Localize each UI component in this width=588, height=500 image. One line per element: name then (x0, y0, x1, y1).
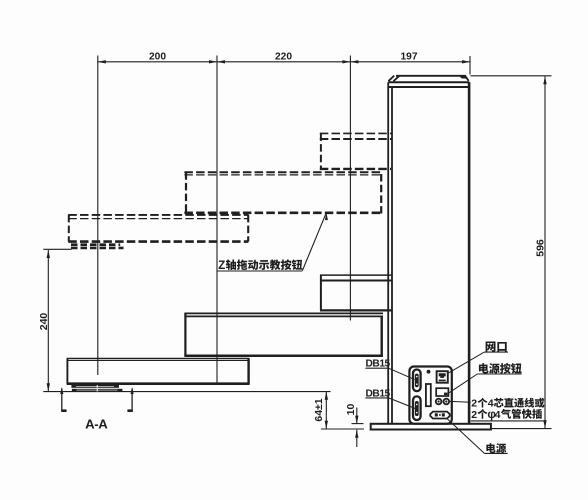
column right edge (468, 82, 471, 423)
svg-text:64±1: 64±1 (313, 398, 325, 421)
extension line x=350.5 (349, 56, 351, 321)
extension line joint2 axis x=217 (216, 56, 218, 386)
section mark A right foot (127, 409, 132, 412)
power inlet (430, 412, 449, 419)
dim 10 upper shaft (356, 408, 358, 424)
dashed arm2 left edge (185, 172, 187, 213)
column left edge inner (391, 87, 393, 424)
column top left chamfer (388, 76, 394, 82)
dimension line top (98, 61, 470, 63)
arrow dim197 right (462, 60, 470, 63)
dashed arm1 top line 2 (68, 218, 248, 220)
arrow dim220 left (217, 60, 225, 63)
tool flange upper bar (71, 385, 119, 388)
leader DB15 upper (389, 368, 415, 379)
extension line column right x=470 (469, 56, 471, 75)
dashed arm2 top line 2 (184, 174, 383, 176)
connector panel plate (409, 367, 451, 424)
dim text 64±1 (313, 398, 325, 421)
extension line 10 top (352, 423, 364, 425)
dashed carriage left edge (320, 133, 322, 168)
column cap line 1 (388, 81, 469, 83)
carriage bottom edge (320, 309, 392, 311)
dashed arm2 top line 1 (184, 171, 383, 173)
leader air tube (450, 400, 471, 403)
dim 10 lower shaft (356, 430, 358, 447)
dim text 200 (149, 52, 166, 63)
arrow dim200 right (209, 60, 217, 63)
dashed carriage bottom edge (320, 168, 391, 170)
arrow dim220 right (342, 60, 350, 63)
svg-text:240: 240 (38, 313, 50, 331)
arm2 top line 2 (184, 315, 383, 317)
svg-text:596: 596 (535, 239, 547, 257)
arm1 top line 1 (67, 357, 250, 359)
label ethernet port (486, 341, 507, 351)
dashed arm1 bottom edge (68, 240, 248, 243)
section mark A left foot (61, 409, 66, 412)
svg-text:10: 10 (345, 404, 357, 416)
dim text 596 (535, 239, 547, 257)
arm1 top line 2 (67, 359, 250, 361)
label power button underline (477, 373, 521, 375)
dimension line 240 (47, 250, 49, 391)
leader DB15 lower (389, 398, 416, 409)
column top right chamfer mark (459, 75, 467, 78)
arm2 right edge (381, 316, 383, 356)
label ethernet underline (484, 351, 508, 353)
DB15 connector J1 (413, 370, 421, 392)
shared extension line y=391.6 (43, 391, 330, 393)
column left edge outer (387, 82, 389, 423)
arrow 596 bottom (543, 420, 546, 428)
label DB15 upper underline (365, 367, 388, 369)
label power button (479, 363, 522, 374)
svg-text:200: 200 (149, 52, 166, 63)
label DB15 lower underline (365, 397, 388, 399)
label 2x 4-core cable line1 (471, 398, 544, 410)
dim text 220 (275, 52, 292, 63)
carriage top line 2 (320, 280, 392, 282)
svg-text:220: 220 (275, 52, 292, 63)
tool flange lower bar (72, 389, 123, 392)
label 2x phi4 air tube line2 (471, 407, 542, 421)
label Z underline (217, 270, 302, 272)
carriage top line 1 (320, 274, 392, 276)
dashed carriage top line 1 (320, 132, 393, 134)
base plate (371, 424, 491, 430)
label Z-axis drag teach button (218, 259, 302, 271)
svg-text:Z: Z (218, 260, 225, 272)
column top right chamfer (466, 77, 469, 81)
section arrow A left (60, 387, 63, 411)
ethernet port (437, 371, 448, 383)
extension line 596 top (471, 75, 552, 77)
dim text 197 (401, 52, 418, 63)
dimension line 64 (325, 392, 327, 429)
label power inlet (486, 443, 506, 453)
dim text 10 (345, 404, 357, 416)
air tube quick plug 2 (444, 399, 450, 405)
carriage left edge (320, 275, 322, 310)
arm2 left edge (184, 313, 186, 356)
label power underline (484, 452, 507, 454)
extension line 64 bottom (321, 428, 364, 430)
arrow 240 top (47, 250, 50, 258)
card slot (426, 384, 431, 406)
arm1 bottom edge (67, 382, 250, 385)
leader power inlet (446, 418, 484, 454)
DB15 connector J2 (413, 396, 421, 420)
arrow dim197 left (350, 60, 358, 63)
power button (436, 388, 448, 396)
extension line left (tool axis x=98) (97, 56, 99, 376)
dashed carriage top line 2 (320, 138, 393, 140)
dashed tool flange row 1 (71, 243, 120, 246)
section arrow A right (131, 387, 134, 411)
svg-text:2: 2 (471, 409, 477, 421)
section label A-A (85, 417, 108, 432)
dim text 240 (38, 313, 50, 331)
dashed arm1 right edge (247, 215, 249, 242)
arm2 top line 1 (184, 312, 383, 314)
label air tube underline (471, 420, 546, 422)
arm1 right edge (247, 358, 249, 384)
arrow 596 top (543, 76, 546, 84)
air tube quick plug 1 (436, 399, 442, 405)
extension line 240 top (43, 248, 71, 250)
label DB15 upper (366, 359, 391, 370)
arrow 10 up (355, 430, 358, 438)
svg-text:197: 197 (401, 52, 418, 63)
arrow dim200 left (98, 60, 106, 63)
column cap line 2 (388, 86, 469, 88)
leader power button (448, 374, 477, 393)
extension line 596 bottom (492, 428, 552, 430)
arm2 bottom edge (184, 354, 383, 357)
dimension line 596 (544, 76, 546, 428)
svg-text:A-A: A-A (85, 417, 108, 432)
dashed arm2 right edge (380, 174, 382, 214)
leader Z label (302, 213, 328, 271)
column top left chamfer inner (393, 76, 399, 81)
dashed arm1 left edge (68, 215, 70, 242)
arrow 64 top (325, 392, 328, 400)
arrow 10 down (355, 416, 358, 424)
column top surface (396, 75, 466, 77)
label DB15 lower (366, 388, 391, 399)
svg-text:4: 4 (495, 409, 501, 421)
svg-text:2: 2 (471, 398, 477, 410)
dashed arm2 bottom edge (184, 212, 381, 215)
dashed tool flange row 2 (71, 247, 124, 250)
leader ethernet (448, 352, 485, 373)
dashed arm1 top line 1 (68, 214, 248, 216)
arm1 left edge (66, 358, 68, 384)
arrow 64 bottom (325, 421, 328, 429)
panel screw (427, 370, 431, 374)
arrow 240 bottom (47, 383, 50, 391)
